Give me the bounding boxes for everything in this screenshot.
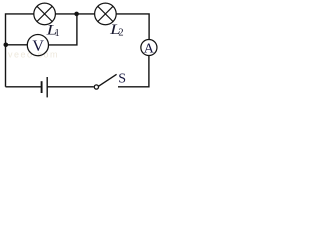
svg-text:V: V: [32, 38, 44, 55]
svg-text:1: 1: [55, 28, 60, 39]
svg-text:2: 2: [118, 28, 123, 39]
svg-text:S: S: [118, 72, 126, 87]
svg-text:A: A: [144, 41, 155, 56]
